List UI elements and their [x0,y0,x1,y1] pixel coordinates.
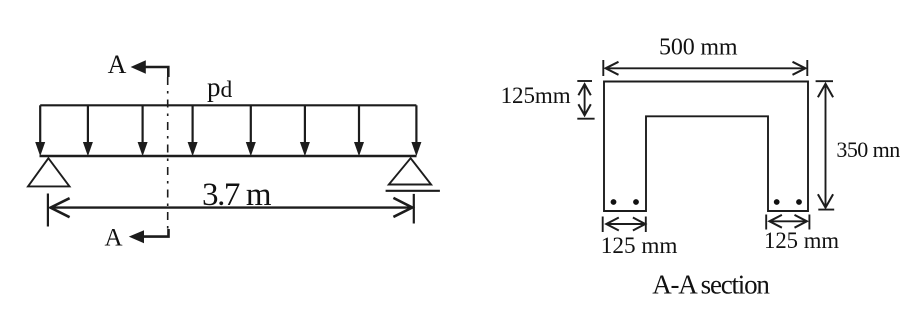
dim 125mm extension ticks [577,81,594,119]
load arrow 5 [246,105,256,156]
section cut arrow (bottom) [129,229,169,243]
dim 125mm double arrow [578,84,590,115]
dim 500 mm arrow line [606,62,806,75]
rebar dot left web 1 [611,199,617,205]
dim 125 mm (right web) double arrow [769,215,807,228]
dim 125 mm (right web) label [764,228,839,253]
dim 350 mm label [836,137,900,162]
load arrow 6 [300,105,310,156]
svg-text:A: A [104,225,122,252]
load arrow 4 [188,105,198,156]
right support ground line [386,190,440,192]
rebar dot left web 2 [633,199,639,205]
dim 125 mm (left web) double arrow [606,218,645,231]
svg-text:A-A section: A-A section [652,269,770,299]
svg-text:350 mn: 350 mn [836,137,900,162]
section label A (bottom) [104,225,122,252]
svg-text:125 mm: 125 mm [601,233,678,259]
span label 3.7 m [202,177,272,213]
load arrow 3 [138,105,148,156]
dim 125mm (flange) label [501,83,571,108]
right support (roller) [389,158,431,184]
svg-text:500 mm: 500 mm [659,35,738,61]
svg-text:125 mm: 125 mm [764,228,839,253]
dim 125 mm (right web) ticks [766,215,809,230]
dim 500 mm extension ticks [603,60,807,76]
channel section outline [604,82,808,212]
dim 500 mm label [659,35,738,61]
dim 125 mm (left web) ticks [603,217,646,233]
svg-text:A: A [108,50,127,79]
svg-text:125mm: 125mm [501,83,571,108]
svg-text:3.7 m: 3.7 m [202,177,272,213]
section cut arrow (top) [131,60,169,77]
left support (pin) [28,158,70,186]
dim 125 mm (left web) label [601,233,678,259]
load arrow 2 [83,105,93,156]
load arrow 7 [354,105,364,156]
span dimension line with open arrowheads [51,198,413,217]
dim 350 mm extension ticks [816,81,835,209]
svg-text:pd: pd [207,72,233,103]
distributed load top line [40,104,416,106]
load arrow 1 [35,105,45,156]
rebar dot right web 1 [774,199,780,205]
section label A (top) [108,50,127,79]
dim 350 mm double arrow [818,84,833,208]
section line A-A (dash-dot) [167,77,169,229]
span dimension ticks [48,194,414,227]
rebar dot right web 2 [796,199,802,205]
beam [40,155,417,157]
caption A-A section [652,269,770,299]
load label pd [207,72,233,103]
load arrow 8 [411,105,421,156]
